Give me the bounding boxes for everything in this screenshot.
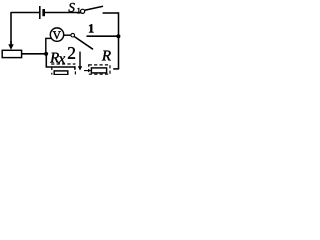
- label S1: S: [69, 3, 75, 12]
- label contact 1: [89, 24, 94, 32]
- wire top-left horizontal: [11, 12, 39, 14]
- wire voltmeter right lead: [64, 34, 71, 36]
- label Rx: R: [50, 53, 59, 63]
- label Rx: subscript x: [58, 56, 65, 63]
- wire battery to switch: [45, 12, 81, 14]
- junction node below voltmeter: [44, 52, 48, 56]
- wire left vertical: [10, 12, 12, 45]
- rheostat slider arrow shaft: [10, 41, 12, 45]
- wire contact 2 to R box: [84, 70, 91, 72]
- wire rheostat to junction: [22, 53, 46, 55]
- probe pivot circle: [71, 33, 75, 37]
- battery cell short thick plate: [42, 9, 45, 16]
- wire voltmeter left lead stub: [45, 37, 51, 39]
- wire contact-1 stub: [87, 35, 119, 37]
- Rx dashed box lower side dashes: [52, 71, 76, 74]
- voltmeter circle: [50, 28, 63, 41]
- label S1: subscript 1: [77, 8, 80, 14]
- circuit schematic figure: [0, 0, 123, 75]
- wire junction down: [45, 54, 47, 67]
- voltmeter letter V: [53, 31, 61, 39]
- Rx dashed box top and left: [52, 64, 76, 70]
- label R: [102, 51, 111, 61]
- battery cell long plate: [39, 6, 41, 19]
- wire right vertical: [118, 12, 120, 69]
- wire voltmeter left lead vertical: [45, 38, 47, 53]
- R dashed box: [89, 65, 110, 74]
- probe blade toward contact 2: [74, 37, 93, 50]
- wire right bottom stub: [113, 68, 119, 70]
- wire bottom horizontal: [46, 66, 75, 68]
- contact-2 arrow head: [78, 66, 82, 70]
- wire corner down into Rx dashed box: [74, 66, 76, 70]
- switch S1 blade open: [85, 6, 103, 10]
- contact-2 arrow shaft: [79, 52, 81, 67]
- resistor Rx box: [54, 71, 68, 75]
- label contact 2: [68, 47, 75, 59]
- rheostat slider arrow head: [8, 44, 13, 50]
- resistor R box: [91, 68, 106, 73]
- rheostat box: [2, 50, 21, 57]
- switch S1 pivot circle: [81, 9, 85, 13]
- junction node on right wire: [116, 34, 120, 38]
- wire switch to top-right corner: [103, 12, 119, 14]
